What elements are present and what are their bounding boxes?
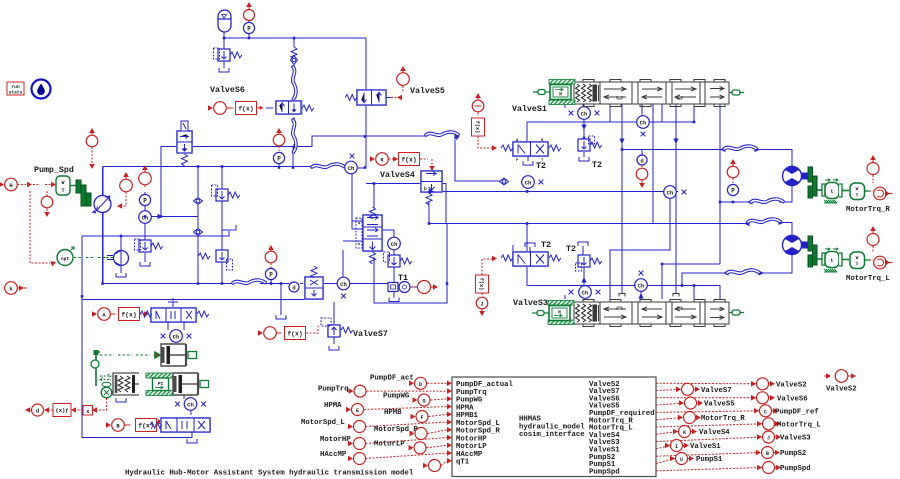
tank marks bottom manifold [619,294,679,297]
wire Ch line y216 [145,147,198,240]
tank T2d above [566,242,588,254]
motor box ValveS1 green [533,80,575,105]
cosim interface box [452,377,656,477]
output port ValveS2 [751,378,807,390]
shaft R [842,190,849,192]
wire v1 right to hose line [193,136,501,181]
check CV2 [194,229,203,236]
flow arrows right [581,125,784,299]
gauge d valve [289,282,299,292]
svg-text:H: H [9,182,12,189]
check valve y181 [500,178,509,185]
output port MotorTrq_R [678,412,745,424]
svg-text:t: t [830,258,833,264]
signal fx T2a [472,93,498,151]
svg-text:W: W [856,186,859,192]
wire valveS7 stubs [333,302,335,344]
svg-text:MotorSpd_R: MotorSpd_R [456,428,500,436]
svg-text:T: T [856,262,859,268]
function f(x) ValveS4 [399,153,435,172]
hose h2 [751,199,783,202]
wire P stub x271 [271,279,281,315]
label T1 [398,274,408,283]
gauge Ch PV right [388,237,401,250]
svg-text:HPMB: HPMB [384,409,402,417]
svg-text:W: W [856,255,859,261]
svg-text:PumpDF_actual: PumpDF_actual [456,381,514,389]
gauge Ch cyl2 [175,395,206,415]
wire right loop t1 [374,224,447,304]
output port I ValveS1 [665,440,721,452]
svg-text:F: F [420,415,423,421]
pump P2 [107,251,129,266]
tank T2a [523,156,546,171]
svg-text:PumpSpd: PumpSpd [780,465,811,473]
valve V7b [304,266,324,300]
valve ValveS7 [321,318,353,350]
svg-text:PumpWG: PumpWG [383,393,410,401]
wire prop right Ch column [381,230,394,283]
svg-text:J: J [480,302,483,308]
svg-text:qT1: qT1 [456,459,470,467]
svg-text:PumpS1: PumpS1 [696,456,723,464]
wire valveS4 link [366,184,446,224]
signal A [92,308,149,321]
mass spring block [113,373,139,395]
cylinder CYL1 [161,344,187,366]
check CV1 [194,198,203,205]
gauge P mid [273,152,284,166]
tank mid [116,398,126,402]
hose y136 [426,132,458,135]
svg-text:ValveS2: ValveS2 [826,386,857,394]
sensor n at pump [117,172,132,209]
wire relief3 tank [144,253,146,262]
sensor P right [727,159,739,196]
input port MotorSpd_R [374,426,427,440]
port cyl1 green [188,352,197,359]
label ValveS3 [513,298,548,308]
gauge P pump [139,194,150,205]
sensor above P top [244,2,255,23]
wire main loop top y166 [103,167,345,168]
wire pump1 column [102,212,104,284]
hydraulic motor R [783,167,808,186]
gauge Ch bus bottom [635,271,648,292]
svg-text:MotorSpd_L: MotorSpd_L [301,419,345,427]
svg-text:b: b [424,186,427,192]
svg-text:T2: T2 [541,241,551,250]
relief T2b [578,136,602,170]
tank T2c above [525,241,551,252]
svg-text:HAccMP: HAccMP [320,451,347,459]
green link a [91,350,160,386]
input port qT1 [423,460,441,472]
label ValveS7 [353,329,388,339]
svg-text:ValveS7: ValveS7 [701,387,732,395]
hose h4 [748,219,780,222]
svg-text:T2: T2 [536,162,546,171]
label ValveS4 [380,170,415,180]
hose h1 [724,146,756,149]
tank below T1 line [389,292,399,302]
valve ValveS4 [420,170,443,205]
spring check x294 [291,47,297,59]
svg-text:T: T [856,193,859,199]
cylinder CYL2 [173,373,198,395]
svg-text:PumpDF_ref: PumpDF_ref [775,409,819,417]
wire check chain x294 [293,38,295,67]
svg-text:T2: T2 [566,245,576,254]
output port K ValveS4 [673,426,730,438]
svg-text:J: J [767,436,770,442]
interface center labels [519,416,585,440]
svg-text:PumpS2: PumpS2 [780,450,806,458]
coupler R green [808,167,817,198]
wire top accumulator bus [224,29,366,38]
output port MotorTrq_L [757,418,821,430]
svg-text:T2: T2 [592,161,602,170]
load WT R [850,183,870,200]
signal source H Pump_Spd [0,178,56,191]
svg-text:ValveS6: ValveS6 [777,396,808,404]
signal B [106,419,163,432]
gauge Ch cyl1 [161,322,192,342]
gauge d right [636,155,648,188]
label ValveS1 [512,104,547,114]
input port PumpTrq [318,385,366,397]
wire bus b y192 [429,191,678,193]
manifold block top [574,80,729,107]
signal to ValveS7 [258,324,318,340]
input port MotorHP [320,436,366,450]
svg-text:ValveS1: ValveS1 [690,443,721,451]
input port MotorSpd_L [301,419,366,433]
rotary npt sensor [57,247,113,266]
svg-text:M: M [559,92,562,98]
label Pump_Spd [34,165,74,175]
junction dots mid [270,166,449,285]
valve V1 top [176,121,193,166]
svg-text:MotorLP: MotorLP [374,441,405,449]
relief valve R3 [135,239,163,252]
svg-text:PumpWG: PumpWG [456,397,483,405]
label title [125,470,414,478]
svg-text:Pump_Spd: Pump_Spd [34,165,74,175]
fluid drop icon [32,80,51,99]
svg-text:MotorTrq_R: MotorTrq_R [701,415,745,423]
sensor W mid [273,128,285,151]
svg-text:MotorLP: MotorLP [456,443,487,451]
wire prop valve connections [343,174,374,277]
wire accumulator to relief [223,38,225,68]
shaft L [842,259,849,261]
wire bus t1 y283 [300,284,447,288]
svg-text:ValveS4: ValveS4 [380,170,415,180]
output port PumpSpd [757,462,811,474]
port b arrow [424,186,434,194]
input port E [324,402,364,416]
hydraulic motor L [783,236,808,255]
arrow hose end [455,134,461,139]
relief R4 [384,252,412,267]
sensor T MotorTrq_R [869,187,893,200]
output port U PumpS1 [670,453,723,465]
wire v1 left drop [161,147,177,217]
svg-text:U: U [680,457,683,463]
gauge Ch y181 [522,176,544,189]
output port C PumpDF_ref [754,405,819,417]
svg-text:W: W [61,180,64,186]
svg-text:HPMB1: HPMB1 [456,412,479,420]
hose valveS6 lower [293,120,296,152]
motor box ValveS3 green [532,301,574,325]
gauge Ch t1bus [337,277,350,298]
svg-text:T: T [61,188,64,194]
wire valveS6 chain lower [293,98,295,119]
valve ValveS6 [275,100,314,115]
coupler L green [808,236,817,267]
signal out T1 [410,281,438,294]
red dashed to npt [30,191,57,266]
svg-text:MotorTrq_L: MotorTrq_L [777,422,821,430]
manifold block bottom [574,300,729,327]
gauge P bottom loop [265,268,276,279]
wire loop left side [102,167,105,283]
integrator chain red [25,398,107,417]
input port F [384,409,428,423]
hose valveS6 upper [293,67,296,99]
run stats block [7,82,24,96]
gauge Ch bus1 [664,186,687,199]
svg-text:ValveS4: ValveS4 [699,429,730,437]
sensor top left U [86,128,98,169]
valve T2a [501,139,561,163]
proportional valve PV [356,207,383,264]
interface right labels [589,381,655,477]
valve T2c bottom [501,251,561,267]
svg-text:B: B [766,451,769,457]
coupler green pump [76,180,91,206]
relief R2 [198,250,232,270]
gauge Ch manifold bottom [569,286,601,299]
sensor above WT R [867,155,879,183]
check valve x294 [291,56,298,65]
port cyl2 green [200,381,209,388]
lug right manifold top [729,90,744,95]
wires right region [513,104,792,299]
signal k [5,282,27,295]
svg-text:ValveS3: ValveS3 [513,298,548,308]
standalone ValveS2 [824,370,857,394]
output dashes right [656,383,762,471]
svg-text:HPMA: HPMA [324,402,342,410]
wire valveS6 to junction [293,119,294,167]
interface left labels [456,381,514,467]
valve VB [150,417,211,443]
wire valveS5 vertical x366 [358,38,366,168]
tank below R3 [140,262,150,266]
signal K [370,153,398,166]
svg-text:D: D [419,382,422,388]
svg-text:ValveS7: ValveS7 [353,329,388,339]
controller PI [146,373,173,396]
svg-text:(x)ƒ: (x)ƒ [55,407,68,414]
junction dots right [526,121,735,287]
svg-text:ValveS5: ValveS5 [704,401,735,409]
output port ValveS7 [676,383,732,395]
signal ValveS5 [391,66,409,100]
label ValveS5 [410,86,445,96]
tank below relief [219,68,229,72]
output port ValveS6 [751,392,808,404]
hose bottom loop [233,280,265,283]
wire check branch x198 [197,167,199,284]
source WT green [56,176,76,195]
svg-text:MotorTrq_L: MotorTrq_L [846,275,890,283]
gauge Ch manifold top [637,116,650,137]
svg-text:stats: stats [9,90,23,96]
svg-text:Hydraulic Hub-Motor Assistant: Hydraulic Hub-Motor Assistant System hyd… [125,470,414,478]
hose h5 [727,270,759,273]
output port J ValveS3 [757,431,811,443]
svg-text:I: I [675,444,678,450]
relief valve top-left [214,48,242,61]
function f(x) ValveS6 [236,102,274,115]
wire bus y223 [429,223,747,225]
output port ValveS5 [679,397,735,409]
svg-text:MotorHP: MotorHP [320,436,351,444]
svg-text:run: run [11,85,20,90]
signal fx T2c [476,256,498,316]
svg-text:K: K [683,430,686,436]
sensor drop below H line [41,191,53,217]
wire left vertical x82 lower [82,296,308,438]
input port HAccMP [320,451,366,465]
svg-text:d: d [36,408,39,415]
gauge Ch y167 [345,154,358,174]
arrow on ch line [158,214,164,219]
input port MotorLP [374,441,426,454]
relief R1 [212,185,240,201]
flow sensor T1 [388,282,410,293]
accumulator [218,10,231,32]
wire pump2 top [82,231,229,299]
wire relief branch x222 [222,167,236,284]
junction dots top [223,37,367,169]
svg-text:t: t [830,189,833,195]
svg-text:ValveS6: ValveS6 [210,85,245,95]
junction dots loop [81,165,224,297]
gauge P top [243,22,254,33]
signal source ValveS6 [208,102,250,115]
label MotorTrq_L [846,275,890,283]
wire P Ch stack x145 [144,192,146,195]
svg-text:x: x [86,409,89,415]
label MotorTrq_R [846,206,890,214]
lug right manifold bottom [729,310,744,315]
svg-text:ValveS2: ValveS2 [776,382,807,390]
valve ValveS5 [345,89,391,106]
svg-text:HHMAS: HHMAS [519,416,542,424]
output port B PumpS2 [756,447,806,459]
tank below P2 [116,266,126,277]
svg-text:ValveS5: ValveS5 [410,86,445,96]
input port G [383,393,430,407]
svg-text:PumpDF_act: PumpDF_act [370,375,414,383]
svg-text:PumpSpd: PumpSpd [589,468,620,476]
tank stub x281 [276,315,286,319]
svg-text:G: G [422,399,425,405]
svg-text:npt: npt [61,256,70,262]
wire loop bottom y283 [103,283,290,285]
label ValveS6 [210,85,245,95]
hose y167 [312,164,344,167]
input port D [370,375,427,390]
gauge Ch pump [139,211,152,224]
relief T2d [576,255,602,271]
sensor Im above P [265,245,277,269]
sensor U above P gauge [139,165,152,187]
green converter X [101,387,112,398]
svg-text:ValveS1: ValveS1 [512,104,547,114]
gearbox L green [817,248,842,272]
input arrows left edge [447,381,452,464]
input dashes left [364,383,447,465]
svg-text:PumpTrq: PumpTrq [318,386,349,394]
valve VA [140,298,209,323]
gearbox R green [817,179,842,203]
svg-text:MotorTrq_R: MotorTrq_R [846,206,890,214]
green small arrows [100,374,111,387]
svg-text:C: C [764,409,767,415]
sensor above WT L [867,226,879,252]
sensor T MotorTrq_L [869,256,893,269]
svg-text:cosim_interface: cosim_interface [519,431,585,439]
load WT L [850,252,870,269]
pump P1 [92,196,112,214]
gauge Ch s1 [569,107,600,120]
svg-text:E: E [356,408,359,414]
svg-text:ValveS3: ValveS3 [780,435,811,443]
